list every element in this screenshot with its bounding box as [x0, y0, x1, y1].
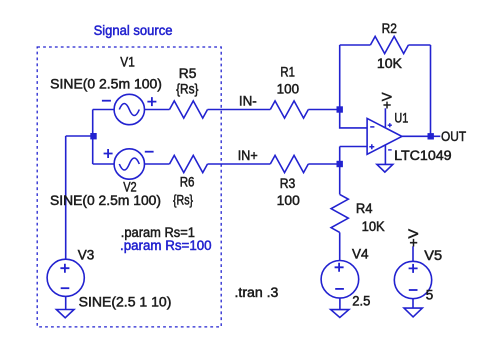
svg-text:IN+: IN+ [238, 148, 258, 163]
svg-text:+V: +V [406, 229, 421, 247]
svg-text:10K: 10K [362, 219, 385, 234]
wire node to op-amp noninverting input [340, 147, 367, 165]
resistor R2 [370, 36, 408, 53]
wire OUT stub [431, 135, 441, 137]
svg-text:R3: R3 [280, 176, 296, 191]
dashed box Signal source [37, 47, 221, 327]
wire V2 left pin [93, 163, 115, 165]
V5 top pin [412, 246, 414, 261]
V5 minus sign [409, 289, 418, 291]
op-amp U1 triangle [367, 118, 402, 154]
resistor R6 [170, 155, 208, 172]
op-amp V+ pin [384, 108, 386, 127]
junction node OUT [428, 133, 434, 139]
resistor R3 [270, 155, 308, 172]
wire V3 branch vertical [65, 136, 67, 259]
svg-text:OUT: OUT [441, 129, 466, 144]
V2 plus sign [104, 149, 113, 158]
junction node A (sources common) [90, 133, 96, 139]
wire V1 right to R5 [145, 109, 170, 111]
svg-text:100: 100 [277, 82, 299, 97]
svg-text:V5: V5 [424, 248, 442, 263]
svg-text:LTC1049: LTC1049 [394, 148, 452, 163]
wire op-amp output [402, 135, 428, 137]
op-amp V- mark [388, 149, 392, 151]
wire V2 right to R6 [145, 163, 170, 165]
wire R3 to node IN+ [308, 163, 339, 165]
svg-text:SINE(0 2.5m 100): SINE(0 2.5m 100) [50, 76, 162, 91]
wire R6 to R3 [208, 163, 271, 165]
svg-text:+V: +V [379, 92, 394, 109]
voltage source V2 circle [114, 149, 144, 179]
ground V4 [331, 310, 349, 318]
wire node to op-amp inverting input [340, 110, 367, 128]
junction node IN- net [337, 106, 343, 112]
svg-text:10K: 10K [377, 56, 402, 71]
V4 plus sign [335, 263, 344, 272]
op-amp noninverting input mark [369, 144, 374, 149]
op-amp V- pin [384, 145, 386, 164]
wire node to V3 branch horizontal [66, 135, 93, 137]
V5 plus sign [409, 264, 418, 273]
svg-text:V3: V3 [78, 248, 95, 263]
svg-text:SINE(0 2.5m 100): SINE(0 2.5m 100) [50, 193, 161, 208]
svg-text:5: 5 [426, 288, 434, 303]
V5 ground stub [412, 299, 414, 308]
voltage source V3 circle [47, 259, 84, 296]
ground V3 [56, 310, 74, 318]
wire R5 to R1 [208, 109, 271, 111]
wire vertical node to V2 [92, 136, 94, 164]
V1 plus sign [147, 97, 156, 106]
V4 minus sign [335, 288, 344, 290]
svg-text:.param Rs=100: .param Rs=100 [120, 238, 212, 253]
V3 plus sign [60, 264, 69, 273]
V3 ground stub [65, 296, 67, 309]
svg-text:IN-: IN- [239, 94, 257, 109]
wire feedback right vertical [430, 45, 432, 136]
svg-text:.tran .3: .tran .3 [235, 285, 279, 300]
resistor R4 [331, 194, 348, 232]
junction node IN+ net [337, 161, 343, 167]
svg-text:R2: R2 [382, 21, 397, 36]
svg-text:V1: V1 [120, 54, 135, 69]
resistor R5 [170, 101, 208, 118]
svg-text:100: 100 [277, 193, 300, 208]
V3 minus sign [61, 287, 70, 289]
voltage source V1 circle [114, 94, 144, 124]
svg-text:{Rs}: {Rs} [176, 82, 199, 97]
resistor R1 [270, 101, 308, 118]
op-amp inverting input mark [370, 126, 374, 128]
svg-text:V4: V4 [352, 246, 369, 261]
voltage source V4 circle [321, 261, 359, 299]
V1 minus sign [102, 100, 111, 102]
svg-text:R6: R6 [180, 175, 195, 190]
V2 minus sign [145, 151, 154, 153]
svg-text:R4: R4 [356, 201, 373, 216]
wire feedback left vertical [339, 45, 341, 110]
wire V1 left pin [93, 109, 115, 111]
svg-text:SINE(2.5 1 10): SINE(2.5 1 10) [79, 294, 172, 309]
ground V5 [404, 308, 422, 317]
wire feedback top left [340, 44, 371, 46]
svg-text:R1: R1 [280, 64, 295, 79]
ground op-amp [377, 164, 393, 172]
svg-text:2.5: 2.5 [352, 293, 370, 308]
wire vertical V1 to node [92, 110, 94, 137]
svg-text:R5: R5 [179, 66, 197, 81]
V4 ground stub [339, 298, 341, 310]
op-amp V+ mark [388, 123, 392, 127]
wire feedback top right [408, 44, 430, 46]
wire R4 to V4 [339, 232, 341, 260]
wire R1 to node IN- [308, 109, 339, 111]
wire node to R4 [339, 164, 341, 194]
V1 sine glyph [119, 104, 139, 116]
voltage source V5 circle [394, 261, 431, 298]
svg-text:{Rs}: {Rs} [173, 192, 194, 207]
svg-text:Signal source: Signal source [94, 23, 173, 38]
V2 sine glyph [119, 158, 139, 170]
svg-text:U1: U1 [394, 110, 408, 125]
